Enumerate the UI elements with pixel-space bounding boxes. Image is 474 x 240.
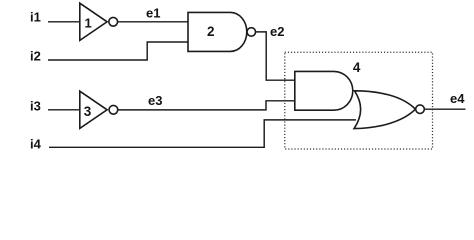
inverter 1 bubble xyxy=(109,17,118,26)
inverter 1 triangle xyxy=(80,3,107,40)
nand gate 2 bubble xyxy=(247,28,256,37)
svg-text:4: 4 xyxy=(353,60,361,75)
svg-text:i3: i3 xyxy=(30,99,41,114)
and gate of element 4 xyxy=(295,71,353,110)
svg-text:i2: i2 xyxy=(30,48,41,63)
nor gate of element 4 (or body) xyxy=(354,91,415,129)
node i1 input wire xyxy=(48,21,80,23)
svg-text:e2: e2 xyxy=(270,24,284,39)
svg-text:1: 1 xyxy=(85,15,92,30)
svg-text:e3: e3 xyxy=(148,93,162,108)
svg-text:e4: e4 xyxy=(450,91,465,106)
inverter 3 triangle xyxy=(80,91,107,128)
wire e3 (inverter 3 output, steps up into and 4 input 2) xyxy=(118,101,295,110)
nor gate 4 bubble xyxy=(416,105,425,114)
svg-text:i1: i1 xyxy=(30,10,41,25)
nand gate 2 body xyxy=(188,12,247,51)
svg-text:e1: e1 xyxy=(146,5,160,20)
wire e2 (nand 2 output down into and 4 input 1) xyxy=(256,32,295,80)
svg-text:2: 2 xyxy=(207,24,215,39)
wire e1 (inverter 1 output to nand 2 input 1) xyxy=(117,21,188,23)
svg-text:i4: i4 xyxy=(30,137,42,152)
wire e4 (nor 4 output) xyxy=(425,108,466,110)
node i4 input wire (steps up into nor 4 lower input) xyxy=(49,120,356,147)
inverter 3 bubble xyxy=(109,105,118,114)
node i3 input wire xyxy=(48,109,80,111)
node i2 input wire (steps up into nand 2 input 2) xyxy=(48,42,188,60)
svg-text:3: 3 xyxy=(84,104,92,119)
dashed box around element 4 xyxy=(285,52,433,149)
